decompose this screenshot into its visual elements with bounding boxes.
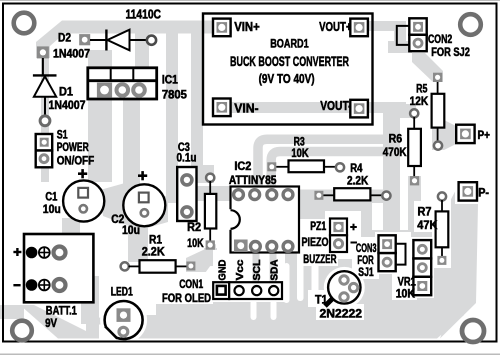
- svg-text:LED1: LED1: [111, 287, 133, 299]
- svg-text:D1: D1: [59, 87, 74, 99]
- svg-text:FOR SJ2: FOR SJ2: [431, 47, 470, 59]
- wire chamfer region around D2/D1 pads: [36, 21, 79, 47]
- wire D1 vertical: [41, 56, 49, 130]
- svg-text:9V: 9V: [45, 318, 57, 330]
- svg-text:BUCK BOOST CONVERTER: BUCK BOOST CONVERTER: [230, 53, 349, 69]
- wire R2 C3 to IC2: [197, 186, 231, 201]
- svg-text:10K: 10K: [187, 238, 204, 250]
- wire R6 bottom down: [408, 176, 421, 235]
- svg-text:12K: 12K: [410, 96, 429, 108]
- svg-text:CON3: CON3: [356, 243, 377, 255]
- resistor R3: [267, 160, 344, 172]
- svg-text:(9V TO 40V): (9V TO 40V): [259, 71, 315, 86]
- mounting hole bottom-right: [462, 320, 484, 342]
- svg-text:1N4007: 1N4007: [49, 100, 86, 112]
- plus C2: [138, 171, 147, 180]
- svg-text:BOARD1: BOARD1: [270, 37, 309, 51]
- wire SCL trace IC2 to CON1: [253, 252, 260, 283]
- IC IC2 ATTINY85: [229, 187, 299, 253]
- wire IC2 pin2 to R6 outer L-trace: [258, 139, 390, 190]
- wire C1 down to BATT: [62, 218, 80, 256]
- svg-text:T1: T1: [315, 295, 328, 307]
- svg-text:10K: 10K: [291, 148, 309, 160]
- mounting hole bottom-left: [12, 321, 32, 341]
- svg-text:BUZZER: BUZZER: [303, 254, 337, 266]
- svg-text:VIN+: VIN+: [234, 20, 260, 34]
- svg-text:IC1: IC1: [162, 74, 179, 86]
- plus C1: [78, 169, 87, 178]
- wire band behind R4: [296, 190, 392, 204]
- resistor R2: [205, 174, 216, 250]
- wire blob C1 C2 R2: [100, 183, 168, 230]
- module BOARD1: [203, 14, 373, 125]
- svg-text:GND: GND: [217, 259, 229, 280]
- svg-text:PIEZO: PIEZO: [302, 237, 329, 249]
- capacitor C2: [123, 184, 165, 226]
- svg-text:R1: R1: [149, 234, 163, 246]
- diode D2: [79, 30, 156, 51]
- wire top band D2 to VIN+: [64, 21, 232, 34]
- svg-text:ON/OFF: ON/OFF: [57, 156, 94, 168]
- capacitor C3: [177, 167, 196, 221]
- resistor R5: [432, 73, 445, 150]
- svg-text:10K: 10K: [396, 289, 416, 301]
- wire R5 to P+: [432, 120, 458, 150]
- page edges: [0, 0, 500, 1]
- wire SDA trace IC2 to CON1: [270, 252, 277, 283]
- svg-text:R3: R3: [294, 136, 305, 148]
- svg-text:P+: P+: [478, 130, 491, 142]
- buzzer PZ1: [330, 219, 347, 253]
- svg-text:2.2K: 2.2K: [347, 175, 369, 187]
- svg-text:R7: R7: [418, 206, 432, 218]
- connector CON2: [397, 18, 427, 51]
- wire R1 right pad to CON1: [186, 244, 216, 280]
- svg-text:CON2: CON2: [428, 34, 452, 46]
- minus PZ1: [351, 242, 358, 244]
- wire IC1 pad3 down: [123, 99, 140, 190]
- svg-text:VOUT-: VOUT-: [320, 99, 351, 113]
- connector CON3: [379, 235, 406, 271]
- wire branch to R2 top: [191, 31, 203, 172]
- svg-text:C1: C1: [45, 192, 57, 204]
- wire C2 down: [128, 225, 148, 262]
- regulator IC1: [88, 68, 157, 99]
- svg-text:Vcc: Vcc: [234, 259, 246, 280]
- svg-text:0.1u: 0.1u: [177, 152, 197, 164]
- svg-text:CON1: CON1: [179, 279, 203, 291]
- svg-text:VOUT+: VOUT+: [319, 20, 352, 34]
- switch S1: [36, 134, 53, 167]
- battery BATT.1: [24, 234, 93, 302]
- resistor R4: [314, 188, 390, 200]
- wire D2 pad down to IC1: [135, 31, 149, 69]
- resistor R1: [121, 260, 196, 273]
- trimmer VR1: [413, 240, 431, 295]
- svg-text:VR1: VR1: [398, 277, 417, 289]
- plus PZ1: [350, 224, 357, 231]
- svg-text:VIN-: VIN-: [234, 102, 258, 116]
- svg-text:47K: 47K: [417, 220, 438, 232]
- svg-text:2.2K: 2.2K: [142, 247, 166, 259]
- mounting hole top-right: [460, 14, 481, 35]
- resistor R7: [436, 192, 449, 265]
- wire CON2 to R5: [412, 53, 443, 82]
- svg-text:FOR OLED: FOR OLED: [162, 293, 211, 305]
- wire pour right of IC2: [298, 202, 372, 316]
- svg-text:FOR: FOR: [357, 255, 374, 267]
- svg-text:10u: 10u: [122, 225, 140, 237]
- svg-text:D2: D2: [58, 33, 71, 45]
- plus BATT: [13, 248, 21, 256]
- wire VOUT- to right side: [368, 102, 406, 113]
- svg-text:7805: 7805: [162, 90, 188, 102]
- svg-text:R5: R5: [416, 83, 428, 95]
- wire pour mid column under IC2: [230, 255, 300, 276]
- wire branch to C3 area: [166, 31, 178, 203]
- wire board internal VIN- to VOUT-: [225, 102, 355, 113]
- svg-text:R6: R6: [389, 133, 403, 145]
- svg-text:R4: R4: [350, 163, 363, 175]
- resistor R6: [408, 109, 421, 185]
- wire VOUT+ to CON2: [368, 21, 406, 31]
- connector CON1: [213, 282, 282, 299]
- svg-text:R2: R2: [187, 222, 201, 234]
- wire D1 pad to S1 to C1: [41, 128, 49, 182]
- capacitor C1: [63, 180, 104, 221]
- transistor T1: [325, 271, 360, 306]
- svg-text:470K: 470K: [383, 147, 407, 159]
- svg-text:1N4007: 1N4007: [53, 49, 90, 61]
- svg-text:POWER: POWER: [57, 142, 90, 154]
- pad P+: [456, 125, 474, 143]
- minus BATT: [13, 284, 20, 286]
- svg-text:PZ1: PZ1: [310, 221, 326, 233]
- wire bottom pour: [86, 315, 464, 339]
- pad P-: [459, 182, 477, 200]
- svg-text:SDA: SDA: [269, 259, 281, 280]
- svg-text:SCL: SCL: [251, 259, 263, 281]
- svg-text:11410C: 11410C: [126, 8, 162, 22]
- wire left edge to bottom pour: [0, 305, 24, 319]
- wire pour right column: [350, 230, 455, 316]
- svg-text:S1: S1: [57, 130, 68, 142]
- svg-text:IC2: IC2: [234, 161, 251, 173]
- svg-text:2N2222: 2N2222: [320, 308, 363, 320]
- LED LED1: [99, 301, 143, 340]
- wire IC1 left column: [88, 50, 112, 182]
- WHITE ISLANDS: [100, 178, 490, 349]
- svg-text:SJ1: SJ1: [358, 267, 374, 279]
- svg-text:10u: 10u: [43, 204, 61, 216]
- mounting hole top-left: [14, 13, 35, 34]
- svg-text:P-: P-: [478, 187, 489, 199]
- U-shaped traces under IC2: [256, 252, 299, 311]
- svg-text:BATT.1: BATT.1: [46, 304, 77, 318]
- wire IC2 pin3 to R5 inner L-trace: [271, 152, 390, 191]
- diode D1: [33, 46, 57, 125]
- wire to R6 top: [396, 104, 416, 118]
- svg-text:C2: C2: [111, 214, 124, 226]
- svg-text:ATTINY85: ATTINY85: [229, 175, 277, 187]
